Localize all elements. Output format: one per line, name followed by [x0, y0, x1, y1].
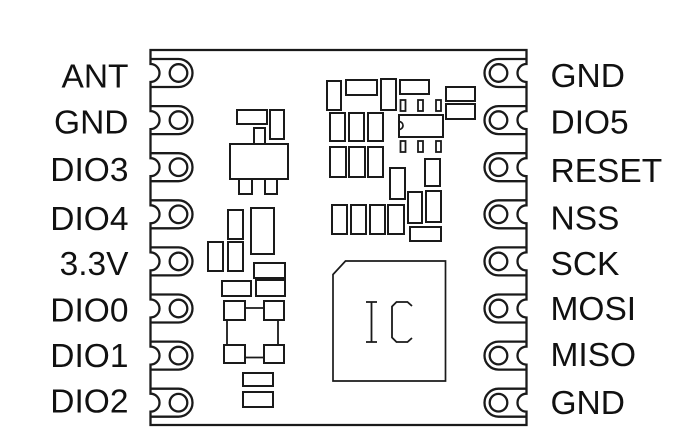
svg-text:RESET: RESET	[551, 153, 663, 190]
svg-text:DIO4: DIO4	[50, 201, 128, 238]
svg-text:DIO2: DIO2	[50, 384, 128, 421]
svg-text:DIO5: DIO5	[551, 104, 629, 141]
svg-text:DIO1: DIO1	[50, 338, 128, 375]
svg-text:DIO3: DIO3	[50, 152, 128, 189]
svg-text:NSS: NSS	[551, 201, 620, 238]
svg-text:SCK: SCK	[551, 246, 620, 283]
svg-text:GND: GND	[54, 105, 128, 142]
svg-text:MOSI: MOSI	[551, 291, 637, 328]
svg-text:GND: GND	[551, 58, 625, 95]
svg-text:ANT: ANT	[62, 58, 129, 95]
svg-text:3.3V: 3.3V	[60, 246, 130, 283]
svg-text:MISO: MISO	[551, 337, 637, 374]
svg-text:DIO0: DIO0	[50, 293, 128, 330]
svg-text:GND: GND	[551, 385, 625, 422]
